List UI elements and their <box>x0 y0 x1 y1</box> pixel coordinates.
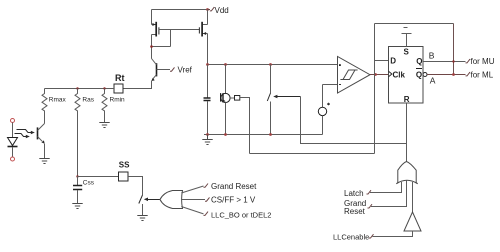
wire M1 drain down to Q2 collector <box>151 35 153 59</box>
svg-text:Ras: Ras <box>82 97 94 104</box>
wire Ras branch down <box>77 114 79 177</box>
svg-text:SS: SS <box>119 161 130 170</box>
svg-text:A: A <box>430 75 436 85</box>
buffer U3 <box>404 212 421 231</box>
flip-flop U2 box <box>389 47 424 104</box>
junction Vdd corner <box>206 8 209 11</box>
resistor Ras <box>75 89 80 114</box>
pin Grand Reset <box>204 184 209 188</box>
svg-text:Css: Css <box>83 180 95 187</box>
svg-text:Vref: Vref <box>178 66 193 75</box>
resistor Rmin <box>102 89 107 114</box>
pin Latch <box>367 190 372 194</box>
wire feedback vertical left <box>374 24 376 154</box>
pin CS/FF <box>205 197 210 201</box>
pin for MU <box>466 59 471 63</box>
svg-text:for ML: for ML <box>471 71 494 80</box>
wire gate bus M1-M2 <box>159 29 200 31</box>
wire CS rail <box>208 64 338 66</box>
pin for ML <box>466 72 471 76</box>
svg-text:LLC_BO or tDEL2: LLC_BO or tDEL2 <box>211 210 271 219</box>
junction CS rail at Vdd branch <box>206 63 209 66</box>
svg-text:S: S <box>404 48 410 57</box>
pin wedge Clk <box>389 71 392 77</box>
wire Qbar output <box>427 74 466 76</box>
svg-text:Vdd: Vdd <box>215 6 229 15</box>
junction diode-connect <box>150 45 153 48</box>
svg-text:Latch: Latch <box>344 189 364 198</box>
transistor Q1 (optocoupler NPN) <box>38 124 45 144</box>
wire SS to switch S1 <box>128 177 143 196</box>
wire feedback right vertical <box>453 24 455 75</box>
transistor M3 (discharge MOS in circle) <box>221 65 235 135</box>
svg-text:Grand Reset: Grand Reset <box>211 182 257 191</box>
wire Q2 emitter to Rt <box>123 81 152 89</box>
junction Ras bus <box>76 87 78 89</box>
junction ground rail M3 <box>224 133 227 136</box>
optocoupler light arrow 1 <box>17 130 35 135</box>
wire M2 source up <box>207 10 209 25</box>
wire OR1 input CS/FF <box>181 199 205 201</box>
resistor SS (box) <box>119 172 129 181</box>
svg-text:for MU: for MU <box>471 57 495 66</box>
wire Vdd top rail <box>152 9 208 11</box>
capacitor Css <box>73 177 82 204</box>
junction feedback crossing Q <box>452 60 454 62</box>
svg-text:CS/FF > 1 V: CS/FF > 1 V <box>211 196 256 205</box>
optocoupler light arrow 2 <box>15 134 30 139</box>
pin LLC_BO <box>204 212 209 216</box>
wire S2 control arrow <box>273 95 300 99</box>
wire M2 drain down to CS rail <box>207 34 209 65</box>
pin box M3 gate <box>235 96 240 101</box>
pin Vref <box>170 67 175 71</box>
svg-text:Clk: Clk <box>393 71 406 80</box>
wire resistor bus <box>45 88 115 90</box>
wire OR1 input LLC_BO <box>181 207 203 214</box>
wire feedback bottom <box>250 153 375 155</box>
transistor M2 (PMOS right) <box>199 22 207 37</box>
svg-text:R: R <box>404 95 410 104</box>
or-gate OR1 (mirrored, output left) <box>160 191 183 209</box>
transistor Q2 (NPN with Vref base) <box>151 59 170 82</box>
junction CS rail at S2 <box>269 63 272 66</box>
or-gate OR2 (pointing up) <box>396 162 417 184</box>
ground S1 <box>137 216 147 221</box>
tie-high S input <box>402 28 412 47</box>
transistor M1 (PMOS left, diode connected) <box>152 22 159 37</box>
svg-text:Q: Q <box>416 57 422 66</box>
ground rail bottom <box>204 134 323 136</box>
junction Rmin bus <box>103 87 105 89</box>
junction comparator output <box>374 73 377 76</box>
switch S1 <box>139 195 143 204</box>
wire comparator output to Clk <box>370 74 388 76</box>
wire OR2 input Grand Reset 2 <box>371 181 407 207</box>
svg-text:D: D <box>390 57 396 66</box>
wire anode to LED <box>12 123 14 138</box>
switch S2 <box>270 65 272 94</box>
wire M3 gate to feedback <box>240 98 250 154</box>
wire OR1 output arrow to S1 <box>144 198 160 202</box>
ground Rmin <box>99 123 109 128</box>
svg-text:Q: Q <box>416 71 422 80</box>
svg-text:B: B <box>429 51 435 61</box>
wire LED to cathode terminal <box>12 147 14 157</box>
junction CS rail at M3 drain <box>224 63 227 66</box>
resistor Rt (box) <box>114 84 123 93</box>
wire Css node to SS <box>78 176 119 178</box>
wire OR2 input from inverter <box>412 182 414 212</box>
wire diode-connect vertical <box>170 30 172 47</box>
wire S1 to ground <box>142 204 144 216</box>
svg-text:Rmax: Rmax <box>49 97 67 104</box>
svg-text:Reset: Reset <box>344 207 366 216</box>
current source I1 <box>318 85 329 135</box>
wire S2 to ground rail <box>270 102 272 135</box>
wire buffer input <box>373 231 413 237</box>
wire minus input <box>323 84 338 86</box>
wire S2 control drop <box>301 97 407 144</box>
ground rail symbol <box>202 135 212 145</box>
wire OR2 input Latch <box>370 182 402 193</box>
svg-text:LLCenable: LLCenable <box>333 232 369 241</box>
pin Grand Reset 2 <box>368 204 373 208</box>
svg-text:Rmin: Rmin <box>110 97 126 104</box>
junction ground rail S2 <box>269 133 272 136</box>
pin LLCenable <box>369 234 374 238</box>
wire PMOS M1 source drop <box>151 10 153 25</box>
wire D input <box>375 60 389 62</box>
svg-text:Rt: Rt <box>115 73 125 83</box>
diode LED (optocoupler) <box>8 138 18 147</box>
ground Q1 emitter <box>39 159 49 164</box>
junction ground rail cap <box>206 133 209 136</box>
wire Q output <box>423 61 466 63</box>
wire Rmin to ground <box>104 114 106 123</box>
bubble Qbar <box>423 73 427 77</box>
optocoupler anode terminal <box>11 119 15 123</box>
wire Rmax to Q1 collector <box>44 114 46 124</box>
ground Css <box>72 204 82 209</box>
comparator U1 <box>338 57 371 94</box>
resistor Rmax <box>42 89 47 114</box>
junction Css node <box>76 175 78 177</box>
wire Q1 emitter to ground <box>44 144 46 159</box>
wire diode-connect horizontal <box>152 46 171 48</box>
optocoupler cathode terminal <box>11 157 15 161</box>
wire OR1 input Grand Reset <box>181 186 203 193</box>
wire R input <box>406 103 408 162</box>
junction feedback Qbar <box>452 73 455 76</box>
pin Vdd <box>208 7 215 11</box>
wire feedback top <box>375 23 454 25</box>
capacitor C1 (timing cap) <box>204 65 211 135</box>
